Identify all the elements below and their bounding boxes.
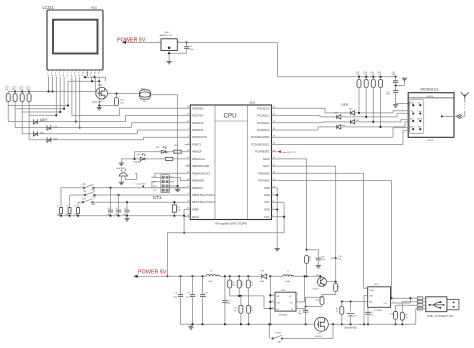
svg-text:10μH: 10μH	[285, 281, 290, 283]
svg-text:VD8: VD8	[342, 125, 346, 127]
red note near XT1	[136, 184, 147, 188]
svg-text:AO3400: AO3400	[316, 335, 323, 338]
svg-text:AVCC: AVCC	[192, 215, 199, 219]
resistor R20	[12, 87, 17, 109]
svg-text:L: L	[98, 75, 99, 77]
capacitor C13	[186, 276, 195, 324]
svg-text:К выв RST: К выв RST	[136, 184, 147, 186]
svg-text:3k: 3k	[338, 287, 340, 289]
wire fuse to vertical drop	[151, 95, 178, 190]
resistor R2 divider top	[228, 276, 236, 296]
svg-text:GND: GND	[410, 103, 415, 105]
capacitor C16	[392, 72, 405, 86]
svg-text:PB2/SS/OC1B: PB2/SS/OC1B	[192, 164, 209, 168]
diode VD2	[22, 112, 185, 136]
USB connector pins	[417, 297, 426, 311]
capacitor C6 (button Up)	[65, 195, 71, 216]
svg-text:MOSI: MOSI	[417, 118, 422, 120]
transistor VT1 P-MOSFET	[92, 84, 107, 104]
ground below VT1	[97, 108, 102, 110]
svg-text:ADC7: ADC7	[263, 164, 270, 168]
diode VD9	[260, 270, 267, 282]
resistor R12b prog	[336, 300, 351, 324]
LED HL2 with resistor R10 row	[135, 145, 186, 153]
svg-text:PB5/SCK: PB5/SCK	[192, 186, 203, 190]
svg-text:PD4/XCK/T0: PD4/XCK/T0	[192, 135, 207, 139]
svg-text:C12: C12	[175, 293, 178, 295]
svg-text:R4: R4	[250, 282, 252, 284]
switch SA1 Power	[269, 324, 333, 343]
svg-text:PD3/INT1: PD3/INT1	[192, 128, 204, 132]
svg-text:VD7: VD7	[356, 120, 360, 122]
svg-text:3.7v: 3.7v	[353, 316, 357, 318]
resistor R14	[371, 72, 376, 122]
svg-text:2.2k: 2.2k	[404, 317, 407, 319]
svg-text:100μ: 100μ	[174, 297, 178, 299]
svg-text:100k: 100k	[315, 300, 319, 302]
svg-text:VCC: VCC	[264, 215, 270, 219]
svg-text:850mAh B1: 850mAh B1	[345, 327, 358, 330]
ground below FU1 line	[175, 189, 180, 191]
wires ISP header to CPU	[155, 173, 185, 177]
svg-text:200p: 200p	[298, 313, 302, 315]
svg-text:VD5: VD5	[349, 108, 353, 110]
svg-text:1: 1	[365, 287, 366, 289]
svg-text:XT1: XT1	[153, 195, 162, 201]
svg-text:C14: C14	[205, 293, 208, 295]
resistor R6 divider bottom	[247, 296, 254, 324]
wire PC4 SDA row to module MISO	[277, 128, 410, 138]
svg-text:VD9: VD9	[261, 270, 265, 272]
capacitor C1	[123, 201, 130, 216]
transistor VT2 N-MOSFET power switch	[314, 317, 328, 338]
diode VD3	[15, 109, 185, 130]
svg-text:27k: 27k	[234, 310, 237, 312]
svg-text:PD0/RXD: PD0/RXD	[192, 106, 203, 110]
svg-text:DD4: DD4	[374, 284, 379, 286]
wire DD4 GND pin	[364, 296, 368, 325]
wire pull-up row a	[8, 105, 68, 107]
svg-text:10μ: 10μ	[370, 314, 373, 316]
svg-text:GND: GND	[264, 208, 270, 212]
svg-text:MODULE1: MODULE1	[421, 88, 439, 92]
RF module MODULE1 nRF24	[408, 88, 454, 142]
switch SB1 Ok	[61, 184, 185, 191]
wire PC5 SCL row to module IRQ	[277, 130, 410, 144]
capacitor C9	[298, 297, 308, 324]
wire 3.3V rail from DA1 to top-right	[177, 42, 395, 76]
svg-text:GND: GND	[264, 193, 270, 197]
svg-text:5.1k: 5.1k	[12, 87, 16, 89]
svg-text:PC0/ADC0: PC0/ADC0	[257, 106, 270, 110]
crystal ZQ1	[172, 201, 180, 216]
wire VT1 drain top	[98, 81, 100, 90]
svg-text:IRLML6402: IRLML6402	[92, 102, 103, 104]
ground under C17	[393, 105, 398, 107]
svg-text:SS34: SS34	[260, 281, 264, 283]
svg-text:KT3107: KT3107	[313, 289, 319, 291]
svg-text:C3: C3	[108, 208, 110, 210]
svg-text:PC1/ADC1: PC1/ADC1	[257, 114, 270, 118]
capacitor C14	[200, 276, 208, 324]
switch SB2 Up	[70, 191, 186, 198]
svg-text:USB_CONNECTOR: USB_CONNECTOR	[427, 314, 453, 318]
svg-text:MT3608: MT3608	[279, 314, 288, 316]
svg-text:PC6/RESET: PC6/RESET	[255, 150, 270, 154]
svg-text:C13: C13	[187, 293, 190, 295]
svg-text:BAT: BAT	[369, 300, 372, 303]
svg-text:100n: 100n	[321, 259, 325, 261]
svg-text:ATmega8A-16PU (TQFP): ATmega8A-16PU (TQFP)	[215, 222, 247, 226]
svg-text:2.4k: 2.4k	[120, 102, 124, 104]
capacitor C5 (button Ok)	[57, 188, 63, 216]
wire PC0 row to module CSN	[277, 108, 410, 113]
svg-text:к выв RST XT1: к выв RST XT1	[282, 152, 297, 154]
svg-text:R9: R9	[166, 152, 168, 154]
svg-text:5.1k: 5.1k	[19, 87, 23, 89]
svg-text:CHRG: CHRG	[369, 290, 375, 292]
svg-text:1.2k: 1.2k	[251, 310, 254, 312]
svg-text:DD3: DD3	[281, 290, 286, 292]
svg-text:R5: R5	[235, 308, 237, 310]
wire pull-up row b	[15, 108, 64, 110]
inductor L2	[206, 270, 219, 282]
svg-text:LCD1: LCD1	[43, 5, 55, 10]
svg-text:PB0/ICP: PB0/ICP	[192, 150, 202, 154]
resistor R25 usb data	[400, 302, 407, 325]
svg-text:+100k: +100k	[389, 313, 394, 315]
diode VD4	[29, 115, 185, 142]
junction dots under LCD	[84, 76, 86, 78]
svg-text:SB2: SB2	[93, 197, 96, 199]
svg-text:SA1: SA1	[278, 341, 281, 344]
svg-text:ADC6: ADC6	[263, 157, 270, 161]
CPU right pin stubs	[272, 108, 277, 216]
red note reset pin	[278, 150, 297, 153]
fuse FU1	[139, 88, 150, 102]
svg-text:AREF: AREF	[192, 208, 199, 212]
node cap common rail	[57, 215, 184, 217]
svg-text:PC3/ADC3: PC3/ADC3	[257, 128, 270, 132]
capacitor C21	[365, 307, 373, 324]
capacitor C3	[107, 187, 114, 216]
voltage regulator DA1 AMS1117-3.3	[158, 31, 179, 51]
charger DD4 LTC4054	[365, 284, 394, 312]
ground buzzer	[119, 182, 124, 184]
battery GB1	[345, 314, 358, 330]
svg-text:PB4/MISO: PB4/MISO	[192, 179, 204, 183]
wire PC2 row to module SCK	[277, 119, 410, 123]
CPU left pin stubs	[185, 108, 190, 216]
wire PD6 to charger	[277, 173, 368, 288]
capacitor C8	[168, 41, 193, 54]
svg-text:470μ: 470μ	[338, 259, 342, 261]
resistor R4 divider top	[246, 276, 253, 296]
svg-text:PD6/AIN0: PD6/AIN0	[258, 171, 270, 175]
svg-text:C1: C1	[124, 208, 126, 210]
CPU right pin labels	[251, 106, 270, 219]
svg-text:100n: 100n	[392, 74, 396, 76]
svg-text:C5: C5	[57, 205, 59, 207]
wire data row to PD0 staircase	[72, 108, 185, 115]
capacitor C17	[386, 85, 409, 106]
svg-text:C7: C7	[74, 205, 76, 207]
svg-text:1k: 1k	[336, 311, 338, 313]
wire pull-up row c	[22, 111, 60, 113]
svg-text:5μH: 5μH	[209, 281, 213, 283]
LCD display LCD1	[43, 5, 104, 70]
wire LCD pin buses under display	[68, 77, 105, 82]
svg-text:R2: R2	[232, 282, 234, 284]
svg-text:VT3: VT3	[316, 275, 319, 277]
svg-text:A2B29: A2B29	[341, 103, 349, 106]
wire LCD pins down to rails	[49, 77, 96, 92]
wire DD3 right pins	[296, 276, 322, 308]
boost converter DD3 MT3608	[272, 290, 298, 316]
svg-text:DD1: DD1	[250, 100, 256, 104]
resistor R15	[378, 72, 383, 127]
svg-text:Power: Power	[276, 333, 282, 335]
wire PC3 row to module MOSI	[277, 122, 410, 130]
diode VD7	[351, 120, 360, 124]
wire PD7 line joins VBUS	[392, 297, 411, 299]
wire DD4 BAT pin to battery	[351, 302, 368, 312]
wire DD3 pin connections	[270, 276, 275, 324]
svg-text:PC2/ADC2: PC2/ADC2	[257, 121, 270, 125]
resistor R24 usb data	[389, 305, 398, 324]
capacitor C19	[222, 276, 230, 324]
LCD1 pin row (pins 1-14)	[47, 70, 99, 77]
resistor R13	[363, 72, 368, 117]
svg-text:100n: 100n	[189, 49, 193, 51]
antenna ANT	[441, 92, 469, 118]
wire CPU VCC pins to 5V	[277, 202, 284, 233]
diode VD6	[334, 112, 341, 119]
wire divider middle row	[230, 295, 249, 297]
svg-text:3k: 3k	[309, 259, 311, 261]
wire 5V rail bottom	[138, 275, 321, 277]
svg-text:PD5/T1: PD5/T1	[192, 142, 201, 146]
resistor R12	[356, 72, 361, 113]
wire feedback link to DD3 FB	[248, 296, 275, 309]
wire VT1 source line to fuse	[107, 93, 141, 95]
wire bottom ground rail	[181, 323, 416, 325]
svg-text:R3: R3	[241, 282, 243, 284]
svg-text:R10: R10	[174, 145, 177, 147]
wire ADC6 to divider	[277, 159, 307, 250]
svg-text:PD1/TXD: PD1/TXD	[192, 114, 203, 118]
svg-text:PD2/INT0: PD2/INT0	[192, 121, 204, 125]
svg-text:PB1/OC1A: PB1/OC1A	[192, 157, 205, 161]
svg-text:5.1k: 5.1k	[26, 87, 30, 89]
ground caps rail	[126, 216, 128, 219]
ground below DA1	[167, 61, 172, 63]
wire AREF/AVCC column	[183, 210, 186, 233]
wire VT1 gate down	[98, 99, 100, 108]
transistor VT3	[313, 275, 327, 291]
svg-text:PC4/ADC4/SDA: PC4/ADC4/SDA	[251, 135, 270, 139]
resistor R16	[26, 87, 31, 116]
ground right of C16	[402, 78, 407, 80]
wire AVCC 5V feed line	[167, 233, 284, 277]
USB socket USB_CONNECTOR	[426, 297, 459, 318]
svg-text:47k: 47k	[241, 284, 244, 286]
wire VT3 connections	[320, 276, 335, 285]
svg-text:nRF24: nRF24	[427, 140, 434, 142]
svg-text:GND: GND	[264, 186, 270, 190]
CPU right pin numbers	[273, 107, 276, 217]
resistor R3 divider top	[237, 276, 244, 296]
wire PD7 to USB sense	[277, 181, 392, 299]
svg-text:AMS1117-3.3: AMS1117-3.3	[160, 34, 173, 37]
svg-text:VD6: VD6	[334, 112, 338, 114]
svg-text:10k: 10k	[178, 210, 181, 212]
wire pull-up row d	[29, 114, 56, 116]
diode VD5	[349, 108, 355, 115]
svg-text:PD7/AIN1: PD7/AIN1	[258, 179, 270, 183]
svg-text:GREEN: GREEN	[134, 162, 142, 164]
svg-text:D+: D+	[418, 305, 420, 307]
ground CPU	[275, 249, 280, 251]
svg-text:LTC4054: LTC4054	[374, 310, 384, 312]
diode VD8	[337, 125, 346, 129]
svg-text:nRF24: nRF24	[427, 96, 434, 98]
MODULE1 pad grid 2x4 with pin labels	[410, 100, 424, 134]
switch SB3 Dn	[78, 198, 185, 205]
svg-text:5.1k: 5.1k	[250, 284, 253, 286]
svg-text:POWER 5V: POWER 5V	[138, 269, 167, 275]
MCU DD1 ATmega8 CPU	[190, 100, 271, 225]
svg-text:6: 6	[297, 294, 298, 296]
svg-text:PB7/XTAL2/TOSC2: PB7/XTAL2/TOSC2	[192, 200, 215, 204]
svg-text:PB3/MOSI/OC2: PB3/MOSI/OC2	[192, 171, 211, 175]
ground C18	[316, 266, 321, 268]
svg-text:PB6/XTAL1/TOSC1: PB6/XTAL1/TOSC1	[192, 193, 215, 197]
resistor R23 gate	[306, 295, 336, 307]
svg-text:SW: SW	[277, 296, 280, 298]
CPU left pin labels	[192, 106, 215, 219]
svg-text:3: 3	[158, 41, 159, 43]
wire ADC7 down	[277, 166, 336, 282]
ISP header XT1	[152, 175, 175, 201]
svg-text:PC5/ADC5/SCL: PC5/ADC5/SCL	[251, 142, 270, 146]
capacitor C20	[332, 256, 342, 261]
resistor R19	[5, 87, 10, 106]
wire DA1 ground pin	[168, 51, 170, 62]
wire CPU GND pins to ground	[276, 188, 279, 248]
svg-text:GND: GND	[170, 182, 175, 184]
capacitor C18	[307, 250, 325, 266]
diode VD1	[8, 106, 185, 125]
svg-text:100n: 100n	[386, 94, 390, 96]
svg-text:SB3: SB3	[92, 204, 95, 206]
resistor R5 divider bottom	[234, 296, 243, 324]
resistor R8 feedback	[305, 249, 312, 277]
svg-text:5.1k: 5.1k	[5, 87, 9, 89]
svg-text:100k: 100k	[232, 284, 236, 286]
node rail 3.3V pull-up rail	[8, 91, 97, 93]
svg-text:VCC: VCC	[264, 200, 270, 204]
LED HL1 with resistor R9 row	[134, 152, 186, 163]
resistor R21	[19, 87, 24, 112]
svg-text:MISO: MISO	[410, 127, 415, 129]
ground for LEDs	[119, 163, 124, 165]
svg-text:4: 4	[393, 301, 394, 303]
svg-text:SB1: SB1	[92, 189, 95, 191]
svg-text:C2: C2	[116, 208, 118, 210]
buzzer BQ1	[117, 168, 137, 182]
ground bottom rail	[190, 324, 192, 327]
wire DD4 VCC pin to USB	[391, 298, 418, 303]
inductor L1	[283, 270, 294, 282]
svg-text:R6: R6	[251, 308, 253, 310]
wire USB data/gnd pins	[396, 302, 418, 325]
wire PC1 row to module CE	[277, 113, 410, 117]
capacitor C2	[115, 194, 122, 216]
svg-text:N110: N110	[91, 6, 98, 10]
svg-text:22μ: 22μ	[205, 297, 208, 299]
svg-text:VT1: VT1	[98, 84, 103, 87]
capacitor C12	[174, 276, 184, 324]
svg-text:CPU: CPU	[224, 113, 237, 120]
capacitor C7 (button Dn)	[74, 202, 80, 216]
wire LED common to ground	[121, 152, 134, 163]
resistor R22 base	[334, 282, 340, 295]
net label POWER 5V (bottom)	[134, 269, 167, 278]
resistor R17	[99, 92, 124, 105]
svg-text:C6: C6	[66, 205, 68, 207]
CPU left pin numbers	[187, 107, 190, 217]
net label POWER 5V (top)	[117, 37, 146, 44]
wire POWER5V to DA1	[126, 41, 161, 43]
svg-text:10μ: 10μ	[186, 297, 189, 299]
svg-text:10μ: 10μ	[227, 303, 230, 305]
